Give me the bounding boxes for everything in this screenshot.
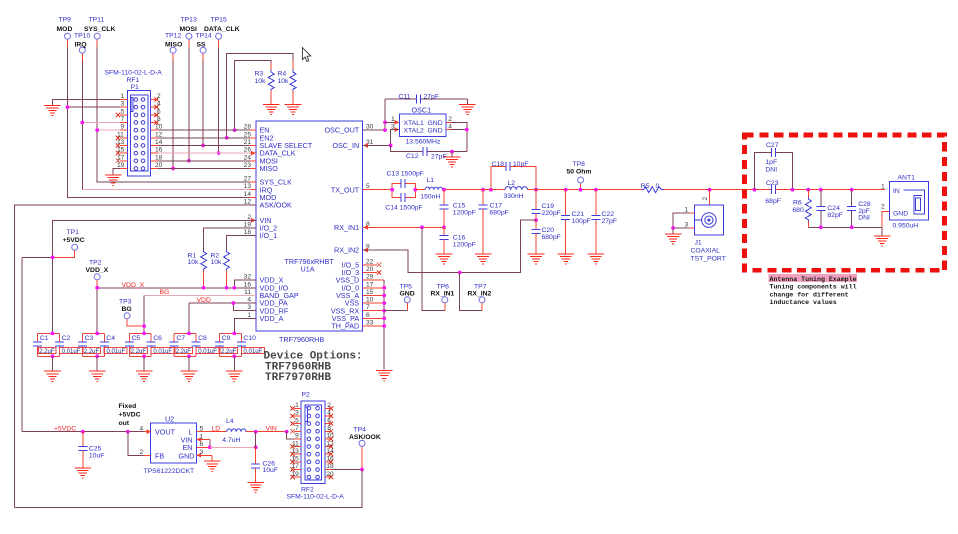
junction pin9/SYS_CLK [95, 128, 99, 132]
wire MOD vertical from TP9 to MOD row [68, 39, 257, 197]
wire IRQ row (highlighted) [82, 189, 256, 191]
svg-text:7: 7 [295, 425, 299, 432]
svg-text:27pF: 27pF [602, 218, 618, 225]
junction DATA_CLK [217, 151, 221, 155]
SECTION: top test points [57, 17, 257, 198]
wire R4 to ground [292, 91, 294, 105]
svg-text:1: 1 [200, 433, 204, 440]
svg-text:C9: C9 [222, 335, 231, 342]
junction C7/C8 bottom [187, 354, 191, 358]
svg-text:100pF: 100pF [572, 218, 591, 225]
svg-text:TH_PAD: TH_PAD [331, 322, 359, 331]
wire TP1 row [22, 250, 75, 257]
capacitor pair C9 2.2uF / C10 0.01uF [215, 333, 264, 356]
wire shunt bottom bar [808, 226, 882, 228]
svg-text:RX_IN2: RX_IN2 [468, 291, 492, 298]
junction L4/C26 [254, 430, 258, 434]
wire L1 to C15 [443, 189, 484, 191]
junction VSS I/O_0 [382, 286, 386, 290]
junction C18 branch left [489, 188, 493, 192]
ground VSS chain [376, 371, 393, 381]
wire P2 pin18 to TP4 [332, 469, 362, 471]
svg-text:C2: C2 [62, 335, 71, 342]
SECTION: cap bank [33, 332, 264, 382]
wire MISO row P1 pin20 to IC pin23 [151, 167, 256, 169]
IC U1A left pin numbers [244, 124, 252, 319]
capacitor C17 680pF [479, 190, 509, 254]
wire EN row P1 pin10 to IC pin28 [151, 129, 256, 131]
svg-text:6: 6 [200, 441, 204, 448]
wire C3/C4 ground stem [96, 356, 98, 371]
svg-text:10: 10 [326, 433, 334, 440]
svg-text:4.7uH: 4.7uH [222, 437, 240, 444]
junction C5/C6 top [142, 332, 146, 336]
junction C21 top [564, 188, 568, 192]
note Device Options [264, 350, 363, 384]
node VIN label [266, 426, 277, 433]
svg-text:17: 17 [117, 154, 125, 161]
svg-text:19: 19 [244, 222, 252, 229]
svg-text:0.01uF: 0.01uF [106, 349, 125, 355]
pin number ANT1 1 [881, 183, 885, 190]
svg-text:C6: C6 [153, 335, 162, 342]
no-connect X P1 pin17 [116, 159, 120, 163]
wire C12 ground stem [451, 152, 453, 157]
svg-text:10k: 10k [255, 78, 267, 85]
svg-text:3: 3 [200, 449, 204, 456]
svg-text:2: 2 [327, 402, 331, 409]
svg-text:TP3: TP3 [119, 299, 132, 306]
resistor R2 10k [211, 236, 257, 288]
wire OSC_IN down to C12 [391, 145, 423, 151]
wire OSC_OUT net [363, 99, 386, 130]
wire ANT1 pin2 to ground [882, 211, 890, 227]
test point TP13 [181, 17, 197, 40]
junction TP6 riser on RX_IN1 [420, 225, 424, 229]
svg-text:25: 25 [244, 131, 252, 138]
svg-text:change for different: change for different [770, 291, 849, 298]
svg-text:2.2uF: 2.2uF [176, 349, 192, 355]
no-connect X P1 pin4 [154, 105, 158, 109]
svg-text:C7: C7 [176, 335, 185, 342]
svg-text:2: 2 [702, 197, 709, 201]
junction L2 right / C19 top [534, 188, 538, 192]
wire OSC_IN row [363, 144, 391, 146]
svg-text:DNI: DNI [765, 167, 777, 174]
test point TP4 ASK/OOK [349, 427, 381, 470]
note Fixed +5VDC out [119, 403, 141, 427]
svg-text:out: out [119, 420, 130, 427]
wire P1 pin19 to ground [113, 168, 127, 175]
svg-text:7: 7 [366, 304, 370, 311]
pin number XTAL 2 [448, 116, 452, 123]
svg-text:15: 15 [366, 289, 374, 296]
antenna ANT1 0.950uH [890, 174, 929, 229]
pin arrow RX_IN2 [363, 248, 368, 253]
wire C11 right to ground [466, 99, 468, 104]
svg-text:Antenna Tuning Example: Antenna Tuning Example [770, 276, 857, 283]
IC U1A right pin names [324, 126, 359, 331]
test point TP9 [59, 17, 72, 40]
svg-text:6: 6 [327, 417, 331, 424]
node SS label [197, 41, 207, 48]
svg-text:10pF: 10pF [513, 161, 529, 168]
svg-text:2: 2 [448, 116, 452, 123]
svg-text:3: 3 [295, 410, 299, 417]
junction EN/C26 column [254, 445, 258, 449]
junction VDD_X bracket [232, 286, 236, 290]
SECTION: antenna box [745, 135, 945, 306]
svg-text:4: 4 [247, 297, 251, 304]
junction C22 top [594, 188, 598, 192]
svg-text:4: 4 [140, 425, 144, 432]
node IRQ label [75, 41, 87, 48]
svg-text:50 Ohm: 50 Ohm [567, 169, 592, 176]
svg-text:SS: SS [197, 41, 207, 48]
svg-text:C27: C27 [766, 142, 779, 149]
capacitor pair C5 2.2uF / C6 0.01uF [125, 333, 174, 356]
junction VSS_RX [382, 309, 386, 313]
capacitor pair C7 2.2uF / C8 0.01uF [170, 333, 219, 356]
svg-text:2.2uF: 2.2uF [39, 349, 55, 355]
inductor L1 150nH [415, 177, 442, 201]
ground C3/C4 [89, 371, 106, 381]
IC U1A right pin numbers [366, 124, 374, 327]
svg-text:TX_OUT: TX_OUT [331, 185, 360, 194]
svg-text:0.950uH: 0.950uH [893, 223, 919, 230]
svg-text:15: 15 [291, 456, 299, 463]
svg-text:20: 20 [326, 471, 334, 478]
svg-text:13: 13 [291, 448, 299, 455]
svg-text:13.560MHz: 13.560MHz [406, 139, 441, 146]
wire TP5 to VSS chain [384, 310, 407, 312]
wire TP2 vertical to cap bank [96, 280, 98, 334]
svg-text:L4: L4 [226, 418, 234, 425]
ground R4 [285, 105, 302, 115]
junction TH_PAD [382, 324, 386, 328]
svg-text:P2: P2 [302, 392, 311, 399]
svg-text:0.01uF: 0.01uF [62, 349, 81, 355]
junction EN tie [208, 445, 212, 449]
junction C1/C2 bottom [51, 354, 55, 358]
junction R6 top [806, 188, 810, 192]
svg-text:IN: IN [893, 188, 900, 195]
svg-text:VOUT: VOUT [155, 428, 176, 437]
svg-text:5: 5 [200, 425, 204, 432]
mouse cursor [302, 48, 310, 62]
svg-text:+5VDC: +5VDC [119, 412, 141, 419]
junction C13/C14 left [390, 188, 394, 192]
ground C1/C2 [44, 371, 61, 381]
junction C3/C4 top [95, 332, 99, 336]
junction TP4/pin18 [360, 468, 364, 472]
test point TP15 [211, 17, 227, 40]
SECTION: OSC [363, 93, 476, 167]
svg-text:4: 4 [327, 410, 331, 417]
wire EN row (highlighted) [210, 446, 256, 448]
svg-text:12: 12 [155, 131, 163, 138]
svg-text:U1A: U1A [301, 264, 315, 273]
svg-text:11: 11 [117, 131, 124, 138]
svg-text:Fixed: Fixed [119, 403, 137, 410]
junction C19/C20 midpoint [534, 218, 538, 222]
svg-text:6: 6 [157, 108, 161, 115]
wire EN2 net to R4 [227, 53, 293, 138]
wire VDD_A net [234, 318, 256, 333]
junction J1 riser [708, 188, 712, 192]
IC left pin stubs [250, 130, 256, 318]
svg-text:12: 12 [244, 199, 252, 206]
svg-text:RF2: RF2 [301, 487, 314, 494]
no-connect X P1 pin6 [154, 113, 158, 117]
svg-text:220pF: 220pF [542, 210, 561, 217]
svg-text:16: 16 [244, 281, 252, 288]
svg-text:82pF: 82pF [827, 212, 843, 219]
connector J1 COAXIAL TST_PORT [691, 205, 726, 262]
no-connect X P1 pin8 [154, 120, 158, 124]
svg-text:C5: C5 [132, 335, 141, 342]
svg-text:OSC_OUT: OSC_OUT [324, 126, 359, 135]
SECTION: misc [264, 48, 363, 385]
IC right pin stubs [363, 130, 385, 326]
wire rail L2 to R5 [536, 189, 642, 191]
ground C5/C6 [136, 371, 153, 381]
svg-text:C4: C4 [106, 335, 115, 342]
svg-text:FB: FB [155, 451, 164, 460]
svg-text:I/O_1: I/O_1 [260, 231, 278, 240]
pin number J1 3 [685, 222, 689, 229]
svg-text:19: 19 [291, 471, 299, 478]
junction C28 top [850, 188, 854, 192]
wire RX_IN1 row [363, 226, 445, 228]
wire XTAL2 pin3 to OSC_IN [391, 130, 400, 146]
svg-text:1: 1 [391, 116, 395, 123]
svg-text:TST_PORT: TST_PORT [691, 255, 726, 262]
junction TP2/VDD_X [95, 286, 99, 290]
ground R3 [263, 105, 280, 115]
wire C17 to C18 branch [483, 189, 505, 191]
node MOSI label [180, 26, 197, 33]
capacitor C13 1500pF (top of parallel pair) [387, 170, 424, 189]
junction EN/R3 [233, 128, 237, 132]
P1 pin stubs right [151, 100, 158, 169]
test point TP7 RX_IN2 [468, 283, 492, 310]
test point TP10 [74, 33, 90, 54]
junction C9/C10 bottom [232, 354, 236, 358]
svg-text:MOD: MOD [57, 26, 73, 33]
svg-text:C10: C10 [243, 335, 256, 342]
wire ASK/OOK net (IC pin12 to left edge and down) [15, 205, 256, 507]
svg-text:RF1: RF1 [127, 77, 140, 84]
junction VSS_A [382, 294, 386, 298]
pin number XTAL 3 [391, 123, 395, 130]
no-connect X P2 right pins [329, 406, 333, 479]
svg-text:GND: GND [400, 291, 415, 298]
svg-text:680: 680 [792, 207, 804, 214]
wire ASK/OOK bottom run [15, 470, 362, 508]
svg-text:VIN: VIN [266, 426, 277, 433]
capacitor C21 100pF [561, 190, 591, 254]
svg-text:TP4: TP4 [354, 427, 367, 434]
svg-text:RX_IN1: RX_IN1 [431, 291, 455, 298]
junction C17 top [481, 188, 485, 192]
ground C25 [75, 468, 92, 478]
svg-text:VDD_A: VDD_A [260, 314, 284, 323]
node +5VDC label [54, 426, 76, 433]
wire P1 pin7 IRQ (highlighted) [82, 121, 127, 123]
svg-text:68pF: 68pF [765, 198, 781, 205]
svg-text:VDD_X: VDD_X [86, 267, 109, 274]
test point TP2 VDD_X [86, 260, 109, 280]
connector P2 SFM-110-02-L-D-A [287, 392, 345, 501]
pin arrow DATA_CLK [251, 151, 256, 156]
svg-text:16: 16 [155, 147, 163, 154]
junction VDD bracket [232, 301, 236, 305]
svg-text:10: 10 [155, 124, 163, 131]
svg-text:C11: C11 [399, 93, 411, 100]
svg-text:11: 11 [292, 440, 299, 447]
svg-text:8: 8 [327, 425, 331, 432]
svg-text:0.01uF: 0.01uF [198, 349, 217, 355]
pin arrow XTAL2 [395, 127, 400, 132]
svg-text:330nH: 330nH [504, 193, 524, 200]
SECTION: bottom [15, 392, 381, 508]
capacitor C27 1pF DNI (parallel loop above rail) [754, 142, 792, 190]
op-amp/IC U1A TRF796xRHBT body [256, 121, 363, 331]
junction C12 ground tap [450, 150, 454, 154]
svg-text:1: 1 [121, 93, 125, 100]
svg-text:11: 11 [244, 289, 251, 296]
svg-text:0.01uF: 0.01uF [244, 349, 263, 355]
svg-text:C1: C1 [40, 335, 49, 342]
svg-text:SYS_CLK: SYS_CLK [84, 26, 115, 33]
svg-text:MISO: MISO [165, 41, 182, 48]
capacitor C12 27pF [406, 147, 467, 160]
svg-text:GND: GND [893, 210, 908, 217]
svg-text:18: 18 [155, 154, 163, 161]
wire L row [204, 431, 227, 433]
junction C1/C2 top [51, 332, 55, 336]
svg-text:10k: 10k [278, 78, 290, 85]
pin arrow U2 VOUT [147, 429, 152, 434]
junction RX_IN1 / C15 / C16 [442, 225, 446, 229]
node MOD label [57, 26, 73, 33]
svg-text:TP7: TP7 [474, 283, 487, 290]
wire DATA_CLK row P1 pin16 to IC pin26 (highlighted) [151, 152, 256, 154]
wire SLAVE SELECT row P1 pin14 to IC pin21 [151, 144, 256, 146]
junction bottom bar C24 [819, 225, 823, 229]
node VDD label [197, 297, 211, 304]
capacitor C24 82pF [816, 190, 843, 228]
wire RX_IN2 net path [363, 220, 537, 272]
svg-text:TPS61222DCKT: TPS61222DCKT [144, 468, 195, 475]
capacitor C18 10pF (parallel with L2) [491, 161, 536, 190]
svg-text:10k: 10k [188, 259, 200, 266]
svg-text:C12: C12 [406, 153, 419, 160]
ground C17 [475, 254, 492, 264]
wire MISO vertical from TP12 to P1 row20 [172, 53, 174, 168]
svg-text:TP15: TP15 [211, 17, 227, 24]
P2 pin numbers left [291, 402, 299, 478]
junction C9/C10 top [232, 332, 236, 336]
svg-text:9: 9 [121, 124, 125, 131]
wire VSS chain vertical to ground [383, 280, 385, 370]
junction TP3/BG [142, 324, 146, 328]
wire +5VDC rail to U2 [22, 431, 150, 433]
svg-text:22: 22 [366, 258, 374, 265]
svg-text:5: 5 [295, 417, 299, 424]
svg-text:2: 2 [247, 214, 251, 221]
junction VSS_PA [382, 317, 386, 321]
wire U2 GND to ground [211, 455, 213, 461]
test point TP14 [196, 33, 212, 54]
ground C21 [557, 254, 574, 264]
P2 pin numbers right [326, 402, 334, 478]
no-connect X P1 pin13 [116, 143, 120, 147]
SECTION: IC [244, 121, 393, 381]
pin arrow U2 VIN [197, 437, 202, 442]
junction VIN corner [285, 430, 289, 434]
node VDD_X label [122, 282, 145, 289]
test point TP6 RX_IN1 [431, 283, 455, 310]
svg-text:COAXIAL: COAXIAL [691, 247, 721, 254]
svg-text:BG: BG [122, 306, 132, 313]
wire IRQ vertical from TP10 to IRQ row [81, 53, 83, 189]
capacitor C23 68pF (inline on rail) [765, 180, 885, 205]
dashed highlight box Antenna Tuning Example [745, 135, 945, 270]
svg-text:TP9: TP9 [59, 17, 72, 24]
svg-text:Device Options:: Device Options: [264, 350, 363, 362]
test point TP3 BG [119, 299, 144, 327]
test point TP12 [165, 33, 181, 54]
ground P1 pin19 [105, 175, 122, 185]
pin number XTAL 1 [391, 116, 395, 123]
svg-text:RX_IN1: RX_IN1 [334, 223, 359, 232]
wire TX_OUT to C13/C14 [363, 189, 393, 191]
wire J1 pins 1,3 to ground [673, 213, 694, 228]
part label TRF7960RHB [279, 335, 324, 344]
svg-text:BG: BG [160, 289, 170, 296]
svg-text:2: 2 [157, 93, 161, 100]
ground C12 [444, 157, 461, 167]
wire BG vertical to cap bank [143, 295, 145, 333]
svg-text:30: 30 [366, 124, 374, 131]
ground C26 [247, 482, 264, 492]
wire bar to ground stem [881, 227, 883, 235]
svg-text:14: 14 [326, 448, 334, 455]
svg-text:OSC_IN: OSC_IN [332, 141, 359, 150]
inductor L2 330nH [504, 180, 528, 200]
wire R3 to ground [270, 91, 272, 105]
svg-text:VDD: VDD [197, 297, 211, 304]
wire VDD row [189, 302, 256, 304]
junction OSC_IN [389, 144, 393, 148]
SECTION: P1 [44, 70, 256, 186]
pin number U2 6 [200, 441, 204, 448]
ground C16 [436, 254, 453, 264]
no-connect X P1 pin15 [116, 151, 120, 155]
junction TP7 riser on RX_IN2 [458, 271, 462, 275]
svg-text:2: 2 [140, 449, 144, 456]
resistor R3 10k [255, 70, 275, 90]
wire C1/C2 ground stem [52, 356, 54, 371]
wire VDD_X row [97, 287, 256, 289]
svg-text:28: 28 [244, 124, 252, 131]
svg-text:TP5: TP5 [400, 283, 413, 290]
svg-text:4: 4 [157, 101, 161, 108]
wire VDD vertical to cap bank [188, 303, 190, 333]
pin number U2 5 [200, 425, 204, 432]
